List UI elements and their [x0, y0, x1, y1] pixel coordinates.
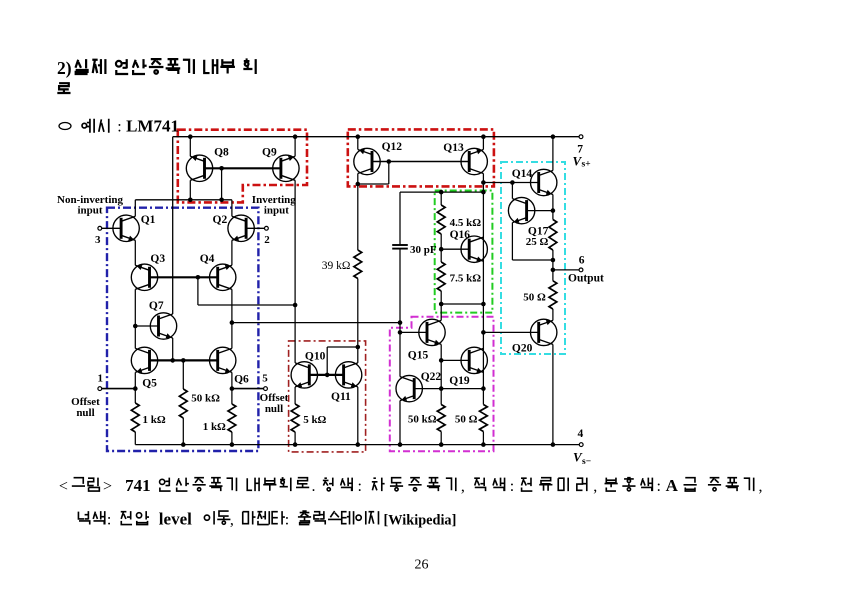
capacitor C1 30pF: [392, 244, 408, 246]
terminal pin 6 output: [579, 268, 583, 272]
transistor Q9: [273, 155, 299, 181]
svg-text:4: 4: [578, 428, 584, 440]
svg-text:Q1: Q1: [141, 214, 156, 226]
svg-text:,: ,: [230, 512, 234, 529]
transistor Q7: [150, 313, 176, 339]
magenta dashed box: class A gain stage: [390, 317, 494, 452]
red dashed box: Q12/Q13 current mirror: [348, 129, 494, 186]
transistor Q20: [531, 319, 557, 345]
wire Q20 base: [483, 331, 537, 333]
resistor R9 25 ohm: [549, 220, 557, 251]
green dashed box: voltage level shifter: [435, 191, 493, 313]
resistor R10 50 ohm (output): [549, 281, 557, 309]
wire Q16 base: [441, 248, 469, 250]
wire offset null 5: [232, 388, 264, 390]
resistor R7 4.5k: [437, 205, 445, 234]
wire offset null 1: [102, 388, 136, 390]
transistor Q6: [210, 347, 236, 373]
red dashed box: Q8/Q9 current mirror: [178, 130, 307, 203]
svg-text:Q5: Q5: [142, 378, 157, 390]
wire inverting input: [246, 227, 264, 229]
wire V+ top rail: [173, 136, 581, 138]
svg-text::: :: [510, 478, 514, 495]
svg-text:25 Ω: 25 Ω: [526, 236, 549, 248]
svg-text:Q20: Q20: [512, 343, 533, 355]
svg-text:1 kΩ: 1 kΩ: [143, 414, 166, 426]
resistor R8 7.5k: [437, 262, 445, 291]
svg-text:null: null: [76, 407, 94, 419]
svg-text:A: A: [666, 476, 679, 495]
svg-text:Q6: Q6: [234, 374, 249, 386]
svg-text::: :: [107, 512, 111, 529]
wire Q19 base: [441, 359, 469, 361]
wire Q8 diode tie: [221, 168, 223, 200]
svg-text::: :: [358, 478, 362, 495]
svg-text:input: input: [264, 205, 289, 217]
transistor Q1: [113, 215, 139, 241]
resistor R12 50k (class A): [437, 405, 445, 432]
transistor Q2: [228, 215, 254, 241]
wire Q17 base: [526, 210, 553, 212]
resistor R11 50 ohm (class A): [480, 405, 488, 432]
transistor Q5: [131, 347, 157, 373]
svg-text::: :: [657, 478, 661, 495]
wire Q7 emitter: [172, 338, 174, 360]
resistor R5 39k: [354, 250, 362, 279]
wire non-inverting input: [102, 227, 121, 229]
transistor Q13: [461, 148, 487, 174]
terminal pin 2 inverting input: [265, 226, 269, 230]
svg-text:Q11: Q11: [331, 391, 351, 403]
wire green box bottom node: [441, 303, 483, 305]
terminal pin 5 offset null: [264, 387, 268, 391]
svg-text:1: 1: [98, 372, 104, 384]
svg-text:2: 2: [264, 234, 270, 246]
transistor Q10: [291, 362, 317, 388]
svg-text:50 Ω: 50 Ω: [523, 291, 546, 303]
wire 50k top/bottom leads: [182, 360, 184, 389]
svg-text:4.5 kΩ: 4.5 kΩ: [450, 217, 482, 229]
svg-text:>: >: [103, 478, 112, 495]
svg-text:Q7: Q7: [149, 300, 164, 312]
svg-text:,: ,: [593, 478, 597, 495]
wire Q13/Q16/Q19/50ohm column: [482, 137, 484, 150]
svg-text:6: 6: [579, 255, 585, 267]
wire Q8-Q9 base link: [205, 167, 281, 169]
wire green box top node: [400, 191, 483, 193]
wire Q9 emitter stub: [294, 137, 296, 157]
wire Q15 base: [400, 331, 427, 333]
transistor Q16: [461, 236, 487, 262]
transistor Q12: [354, 148, 380, 174]
wire Q12-Q13 base link: [372, 161, 470, 163]
wire 30pF/Q15-base/Q22 column: [399, 192, 401, 245]
wire Q1-Q2 collector rail: [135, 199, 232, 201]
bullet: example LM741: [59, 123, 71, 130]
transistor Q3: [131, 264, 157, 290]
resistor R3 1k (offset null right): [228, 404, 236, 432]
svg-text:741: 741: [125, 476, 151, 495]
wire Q17 emitter to output node: [512, 259, 553, 261]
svg-text:Q3: Q3: [150, 253, 165, 265]
wire Q5-Q6 base link: [150, 359, 218, 361]
svg-text:Q22: Q22: [421, 371, 442, 383]
svg-text:50 kΩ: 50 kΩ: [408, 413, 437, 425]
svg-text:level: level: [159, 510, 192, 529]
wire Q1/Q3/Q5 column: [134, 200, 136, 217]
svg-text:,: ,: [759, 478, 763, 495]
wire Q22 base node: [414, 388, 483, 390]
wire Q7 base: [135, 325, 158, 327]
svg-text:Q10: Q10: [305, 351, 326, 363]
svg-text:3: 3: [95, 234, 101, 246]
svg-text:50 kΩ: 50 kΩ: [191, 393, 220, 405]
svg-text:[Wikipedia]: [Wikipedia]: [384, 513, 457, 529]
transistor Q15: [419, 319, 445, 345]
svg-text:Q19: Q19: [449, 375, 470, 387]
svg-text:Q4: Q4: [200, 253, 215, 265]
svg-text:30 pF: 30 pF: [410, 244, 437, 256]
transistor Q17: [508, 197, 534, 223]
svg-text:input: input: [77, 205, 102, 217]
svg-text:2): 2): [57, 58, 72, 78]
junction dots: [188, 134, 193, 139]
svg-text:Q12: Q12: [382, 141, 403, 153]
transistor Q14: [531, 169, 557, 195]
svg-text:Q13: Q13: [443, 142, 464, 154]
svg-text:,: ,: [461, 478, 465, 495]
resistor R4 5k: [291, 404, 299, 432]
svg-text:null: null: [265, 403, 283, 415]
transistor Q22: [396, 375, 422, 401]
wire Q8 emitter/collector stubs: [189, 137, 191, 157]
transistor Q11: [335, 362, 361, 388]
wire Q10/Q11 base tie: [326, 347, 328, 375]
wire V+ rail down to Q7 collector: [172, 137, 174, 314]
svg-text:s+: s+: [582, 159, 591, 169]
wire Q3/Q4 base bias line: [197, 277, 199, 305]
wire Q2/Q4/Q6 column: [231, 200, 233, 217]
wire Q6 collector node: [232, 322, 400, 324]
terminal pin 1 offset null: [98, 387, 102, 391]
terminal pin 7 Vs+: [579, 135, 583, 139]
wire Q14/25ohm/50ohm/Q20 column: [552, 137, 554, 171]
wire Q10-Q11 base link: [309, 374, 343, 376]
svg-text:5: 5: [262, 372, 268, 384]
svg-text:Q8: Q8: [214, 146, 229, 158]
transistor Q4: [210, 264, 236, 290]
svg-text:Q16: Q16: [450, 229, 471, 241]
svg-text:s−: s−: [582, 457, 591, 467]
caption line 2: [78, 511, 89, 524]
terminal pin 4 Vs-: [579, 443, 583, 447]
svg-text:7.5 kΩ: 7.5 kΩ: [450, 273, 482, 285]
wire Q12 diode tie: [388, 162, 390, 185]
svg-text:5 kΩ: 5 kΩ: [303, 414, 326, 426]
blue dashed box: differential amplifier stage: [107, 208, 258, 451]
wire 4.5k/7.5k/Q15/50k column: [440, 192, 442, 205]
svg-text::: :: [285, 512, 289, 529]
wire V- bottom rail: [135, 444, 581, 446]
svg-text:1 kΩ: 1 kΩ: [203, 421, 226, 433]
svg-text:50 Ω: 50 Ω: [455, 413, 478, 425]
wire Q3-Q4 base link: [150, 276, 218, 278]
cyan dashed box: output stage: [501, 162, 565, 354]
svg-text:26: 26: [415, 558, 429, 573]
svg-text:.: .: [312, 478, 316, 495]
wire Q13 collector to Q14 base: [483, 182, 538, 184]
wire Q12/39k/Q11 column: [357, 137, 359, 150]
wire Q17 collector/emitter column: [511, 183, 513, 199]
svg-text::: :: [117, 118, 121, 135]
svg-text:Q2: Q2: [213, 214, 228, 226]
svg-text:<: <: [59, 478, 68, 495]
svg-text:39 kΩ: 39 kΩ: [322, 260, 351, 272]
svg-text:Q14: Q14: [512, 168, 533, 180]
svg-text:LM741: LM741: [126, 116, 179, 135]
transistor Q19: [461, 347, 487, 373]
svg-text:Q9: Q9: [262, 146, 277, 158]
resistor R2 50k: [179, 389, 187, 418]
red dashed box: Q10/Q11 current mirror: [289, 341, 366, 452]
svg-text:Output: Output: [568, 272, 604, 284]
svg-text:Q15: Q15: [408, 349, 429, 361]
wire Q9 collector to Q10 collector: [294, 180, 296, 363]
wire output to pin 6: [553, 269, 581, 271]
transistor Q8: [186, 155, 212, 181]
terminal pin 3 non-inverting input: [98, 226, 102, 230]
resistor R1 1k (offset null left): [131, 403, 139, 432]
